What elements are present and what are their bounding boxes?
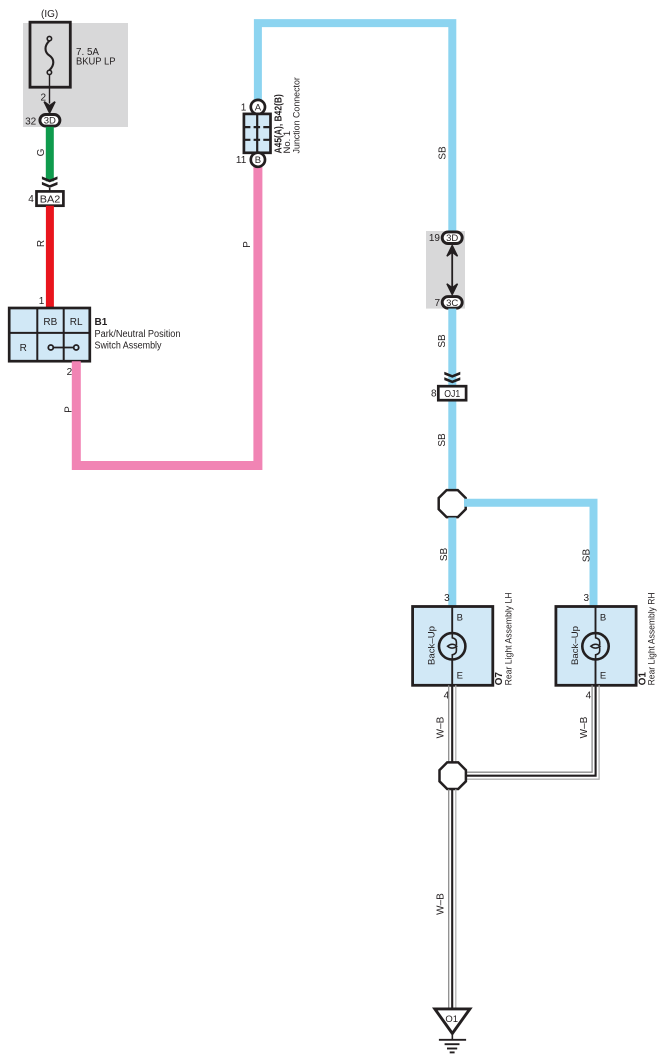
- svg-text:OJ1: OJ1: [444, 389, 460, 400]
- svg-text:2: 2: [40, 92, 46, 103]
- wire P pink: [76, 167, 258, 466]
- svg-text:(IG): (IG): [41, 9, 58, 20]
- svg-text:A: A: [255, 102, 262, 113]
- svg-text:RL: RL: [70, 317, 83, 328]
- splice octagon (W-B): [440, 762, 466, 789]
- junction connector B circle: [251, 153, 265, 167]
- svg-text:W–B: W–B: [436, 716, 447, 738]
- svg-text:Back–Up: Back–Up: [570, 626, 581, 665]
- svg-text:2: 2: [67, 367, 73, 378]
- svg-text:G: G: [36, 148, 47, 156]
- wire W-B LH (lamp to splice): [449, 685, 456, 763]
- stem to BA2: [49, 188, 51, 192]
- svg-text:3: 3: [583, 593, 589, 604]
- wire SB blue (octagon to LH lamp): [448, 518, 456, 608]
- connector oval 3D (right): [442, 232, 462, 244]
- inline connector chevrons above OJ1: [444, 372, 460, 384]
- connector OJ1: [438, 386, 466, 400]
- fuse block gray box: [23, 23, 128, 127]
- wire SB blue branch to RH: [464, 503, 594, 607]
- connector BA2: [37, 191, 64, 205]
- svg-text:SB: SB: [438, 146, 449, 160]
- junction connector A circle: [251, 100, 265, 114]
- ground symbol: [439, 1034, 466, 1053]
- svg-text:SB: SB: [437, 433, 448, 447]
- svg-text:Park/Neutral Position: Park/Neutral Position: [95, 329, 181, 340]
- ground point O1 triangle: [435, 1009, 470, 1034]
- svg-text:Rear Light Assembly RH: Rear Light Assembly RH: [647, 592, 658, 685]
- svg-text:B: B: [255, 155, 261, 166]
- rear light assembly LH box: [413, 607, 493, 686]
- fuse F 7.5A BKUP LP: [30, 22, 70, 87]
- wire fuse to 3D: [49, 75, 51, 104]
- svg-text:19: 19: [429, 233, 441, 244]
- wire SB blue: A circle up, across top, down to 3D: [258, 23, 452, 232]
- splice octagon (SB): [439, 490, 466, 517]
- double arrow between 3D and 3C: [447, 245, 458, 294]
- rear light assembly RH box: [556, 607, 636, 686]
- svg-text:Switch Assembly: Switch Assembly: [95, 340, 162, 351]
- wire G green: [46, 127, 54, 182]
- svg-text:RB: RB: [43, 317, 57, 328]
- svg-text:3D: 3D: [446, 233, 458, 244]
- wire W-B (splice to ground): [449, 789, 456, 1009]
- junction connector box: [244, 114, 271, 153]
- svg-text:SB: SB: [437, 334, 448, 348]
- svg-text:Back–Up: Back–Up: [427, 626, 438, 665]
- svg-text:SB: SB: [439, 548, 450, 562]
- connector oval 3C: [442, 297, 462, 309]
- svg-text:4: 4: [28, 194, 34, 205]
- B1 park/neutral position switch box: [9, 308, 90, 361]
- svg-text:1: 1: [241, 102, 247, 113]
- svg-text:32: 32: [25, 117, 37, 128]
- svg-text:W–B: W–B: [579, 716, 590, 738]
- svg-text:R: R: [36, 240, 47, 247]
- svg-text:Junction Connector: Junction Connector: [292, 77, 303, 153]
- svg-text:8: 8: [431, 388, 437, 399]
- svg-text:7: 7: [434, 298, 440, 309]
- svg-text:R: R: [20, 343, 27, 354]
- svg-text:3D: 3D: [44, 116, 56, 127]
- inline connector chevrons above BA2: [42, 176, 58, 188]
- svg-text:W–B: W–B: [436, 893, 447, 915]
- svg-text:B: B: [457, 612, 463, 623]
- wire SB blue (3C to octagon): [448, 309, 456, 490]
- svg-text:Rear Light Assembly LH: Rear Light Assembly LH: [503, 592, 514, 685]
- svg-text:BA2: BA2: [40, 194, 61, 205]
- connector oval 3D (fuse block): [40, 115, 60, 127]
- gray box 3D/3C: [426, 231, 465, 309]
- svg-text:11: 11: [236, 155, 247, 166]
- arrowhead into 3D: [44, 102, 55, 113]
- switch contacts in B1: [48, 345, 78, 350]
- svg-text:E: E: [457, 671, 463, 682]
- svg-text:E: E: [600, 671, 606, 682]
- svg-text:3C: 3C: [446, 298, 458, 309]
- bulb Back-Up RH: [582, 633, 608, 660]
- svg-text:B: B: [600, 612, 606, 623]
- wire W-B RH (lamp to splice): [463, 685, 599, 779]
- svg-text:P: P: [63, 406, 74, 413]
- svg-text:SB: SB: [581, 549, 592, 563]
- svg-text:B1: B1: [95, 317, 108, 328]
- wire R red: [46, 206, 54, 309]
- bulb Back-Up LH: [439, 633, 465, 660]
- svg-text:P: P: [242, 241, 253, 248]
- svg-text:3: 3: [444, 593, 450, 604]
- svg-text:BKUP LP: BKUP LP: [76, 56, 116, 67]
- svg-text:4: 4: [586, 691, 592, 702]
- svg-text:1: 1: [39, 296, 45, 307]
- svg-text:O1: O1: [445, 1014, 458, 1025]
